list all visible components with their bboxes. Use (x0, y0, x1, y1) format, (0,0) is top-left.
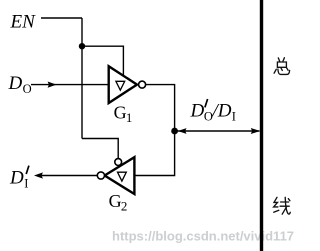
svg-text:D: D (9, 168, 24, 189)
svg-text:G: G (109, 191, 122, 211)
label xian (bus) CJK glyph (274, 197, 291, 214)
op-amp gate G2 (tristate buffer, left pointing) (105, 157, 135, 194)
tristate mark in G1 (116, 81, 125, 90)
wire EN to G2 enable (82, 139, 118, 159)
wire EN horizontal (41, 17, 82, 19)
svg-text:G: G (114, 103, 127, 123)
wire bidirectional to bus (176, 130, 260, 132)
node EN junction (79, 43, 85, 49)
G2 enable bubble (115, 159, 122, 166)
arrowhead on DO wire (48, 82, 57, 88)
wire DO input (31, 84, 109, 86)
svg-text:EN: EN (10, 11, 37, 32)
G2 output bubble (97, 172, 104, 179)
node bus junction (171, 128, 178, 135)
op-amp gate G1 (tristate buffer) (109, 66, 137, 103)
wire EN vertical (81, 18, 83, 139)
svg-text:/D: /D (212, 100, 232, 121)
wire G1 output to junction (146, 85, 175, 131)
label zong (bus) CJK glyph (274, 58, 290, 75)
svg-text:O: O (23, 82, 32, 96)
arrowhead on G2 output wire (34, 172, 43, 178)
arrowhead left of double arrow (178, 128, 187, 134)
svg-text:https://blog.csdn.net/vivid117: https://blog.csdn.net/vivid117 (112, 229, 294, 244)
arrowhead right of double arrow (251, 128, 260, 134)
wire G2 output (40, 175, 97, 177)
svg-text:D: D (190, 100, 205, 121)
G1 output bubble (139, 81, 146, 88)
svg-text:1: 1 (126, 110, 132, 125)
wire EN to G1 enable (82, 46, 123, 76)
svg-text:D: D (8, 73, 23, 94)
bus line (vertical) (260, 0, 263, 251)
svg-text:2: 2 (121, 199, 128, 214)
wire junction down to G2 input (134, 131, 174, 176)
tristate mark in G2 (118, 172, 127, 181)
svg-text:I: I (24, 177, 28, 191)
svg-text:I: I (232, 110, 236, 124)
